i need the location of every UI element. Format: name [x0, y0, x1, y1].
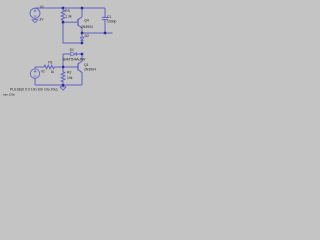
bottom rail	[35, 84, 82, 86]
resistor R3	[61, 8, 65, 22]
junction dots	[62, 7, 106, 86]
svg-text:D2: D2	[85, 34, 89, 38]
wire mid rail	[82, 32, 113, 34]
svg-text:PULSE(0 5 0 10n 10n 10u 20u): PULSE(0 5 0 10n 10n 10u 20u)	[10, 87, 58, 91]
node dot rail-R3	[62, 7, 64, 9]
resistor R2	[61, 67, 65, 83]
ground (bottom, at R2 node)	[60, 85, 66, 90]
svg-text:2N3904: 2N3904	[81, 25, 93, 29]
node dot R2 bottom	[62, 84, 64, 86]
wire V2 to R1	[35, 66, 44, 68]
svg-text:BAT54AJW: BAT54AJW	[63, 57, 87, 61]
voltage source V2	[34, 67, 36, 69]
wire V1 bottom	[34, 18, 36, 19]
node dot rail-Q4	[81, 7, 83, 9]
node dot base row	[62, 66, 64, 68]
wire R3 bottom to node B	[63, 22, 82, 43]
wire Q4 base	[63, 21, 78, 23]
node dot wire43	[81, 42, 83, 44]
voltage source V1	[34, 7, 36, 10]
wire Q1 base	[63, 66, 78, 68]
svg-text:R2: R2	[67, 70, 71, 74]
svg-text:3V: 3V	[39, 18, 44, 22]
svg-text:C1: C1	[107, 15, 111, 19]
wire V2 bottom	[34, 78, 36, 85]
background	[0, 0, 120, 101]
svg-text:2N3904: 2N3904	[84, 68, 96, 72]
diode D1	[71, 52, 77, 56]
diode D1 row wire	[63, 53, 82, 55]
svg-text:1k: 1k	[51, 70, 55, 74]
svg-text:Q1: Q1	[84, 63, 89, 67]
wire top rail	[35, 7, 105, 9]
wire node D to R1 node	[62, 54, 64, 67]
svg-text:D1: D1	[70, 48, 74, 52]
transistor Q4	[78, 8, 82, 33]
svg-text:1.3k: 1.3k	[65, 14, 72, 18]
transistor Q1	[78, 54, 82, 85]
resistor R1	[44, 65, 61, 69]
svg-text:R3: R3	[65, 9, 69, 13]
ground (V1)	[32, 20, 38, 23]
svg-text:10k: 10k	[67, 76, 73, 80]
svg-text:1000p: 1000p	[107, 20, 117, 24]
capacitor C1	[102, 8, 108, 33]
svg-text:.tran 100u: .tran 100u	[2, 92, 15, 96]
node dot R3 bottom	[62, 21, 64, 23]
svg-text:Q4: Q4	[84, 19, 89, 23]
labels	[2, 5, 116, 97]
diode D2 vertical	[80, 33, 84, 43]
svg-text:R1: R1	[48, 61, 52, 65]
svg-text:V2: V2	[41, 69, 45, 73]
node dot Q4 emitter	[81, 32, 83, 34]
node dot cap bottom	[104, 32, 106, 34]
svg-text:V1: V1	[40, 5, 44, 9]
node dot diode row	[81, 53, 83, 55]
